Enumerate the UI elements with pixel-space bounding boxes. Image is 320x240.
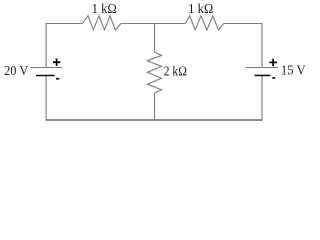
svg-text:1 kΩ: 1 kΩ bbox=[92, 1, 117, 16]
svg-text:20 V: 20 V bbox=[4, 63, 28, 78]
svg-text:15 V: 15 V bbox=[281, 63, 306, 78]
svg-text:1 kΩ: 1 kΩ bbox=[188, 1, 213, 16]
svg-text:2 kΩ: 2 kΩ bbox=[164, 63, 187, 78]
